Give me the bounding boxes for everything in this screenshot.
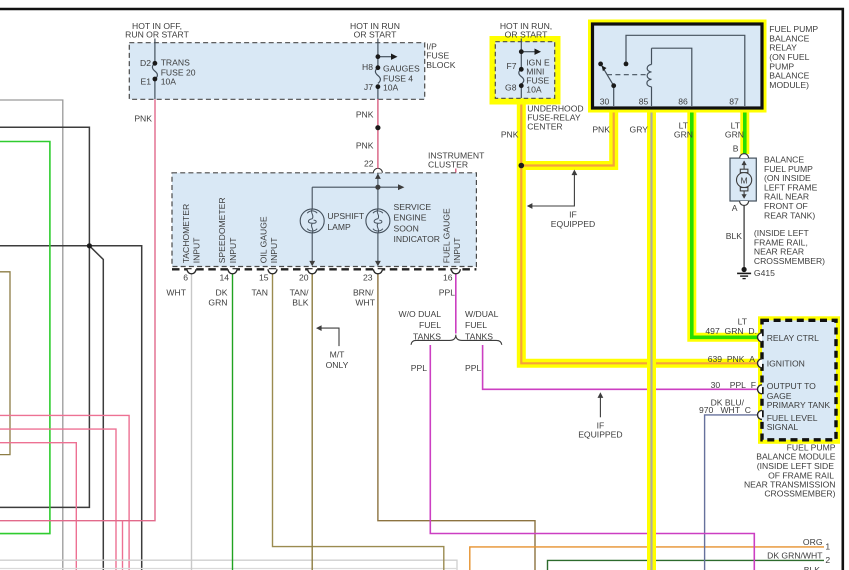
svg-text:TRANS: TRANS bbox=[161, 57, 190, 67]
svg-text:TACHOMETER: TACHOMETER bbox=[181, 204, 191, 264]
svg-text:PNK: PNK bbox=[356, 109, 374, 119]
svg-text:UPSHIFT: UPSHIFT bbox=[327, 211, 365, 221]
svg-text:G415: G415 bbox=[754, 268, 775, 278]
svg-text:ENGINE: ENGINE bbox=[394, 213, 427, 223]
svg-text:SOON: SOON bbox=[394, 223, 419, 233]
svg-text:IF: IF bbox=[569, 210, 577, 220]
svg-text:BLK: BLK bbox=[726, 231, 743, 241]
svg-text:10A: 10A bbox=[161, 76, 177, 86]
svg-text:INPUT: INPUT bbox=[452, 237, 462, 264]
svg-text:1: 1 bbox=[825, 542, 830, 552]
svg-text:PPL: PPL bbox=[411, 363, 427, 373]
svg-text:PPL: PPL bbox=[465, 363, 481, 373]
svg-text:TAN/: TAN/ bbox=[290, 287, 310, 297]
svg-text:OUTPUT TO: OUTPUT TO bbox=[767, 381, 816, 391]
svg-text:BLK: BLK bbox=[804, 565, 821, 570]
svg-text:INDICATOR: INDICATOR bbox=[394, 234, 440, 244]
svg-text:LAMP: LAMP bbox=[327, 222, 351, 232]
svg-text:CROSSMEMBER): CROSSMEMBER) bbox=[754, 256, 825, 266]
svg-text:497 GRN D.: 497 GRN D. bbox=[705, 326, 757, 336]
svg-text:DK: DK bbox=[216, 287, 228, 297]
svg-text:LT: LT bbox=[738, 316, 748, 326]
svg-text:FUEL GAUGE: FUEL GAUGE bbox=[441, 208, 451, 263]
svg-text:RELAY CTRL: RELAY CTRL bbox=[767, 333, 819, 343]
svg-text:86: 86 bbox=[678, 96, 688, 106]
svg-text:GRN: GRN bbox=[208, 298, 227, 308]
svg-text:30: 30 bbox=[600, 96, 610, 106]
svg-text:30 PPL F: 30 PPL F bbox=[711, 380, 756, 390]
svg-text:PNK: PNK bbox=[501, 130, 519, 140]
svg-text:15: 15 bbox=[259, 273, 269, 283]
svg-text:14: 14 bbox=[219, 273, 229, 283]
svg-text:20: 20 bbox=[299, 273, 309, 283]
svg-text:OIL GAUGE: OIL GAUGE bbox=[258, 216, 268, 263]
svg-text:EQUIPPED: EQUIPPED bbox=[551, 219, 595, 229]
svg-text:22: 22 bbox=[364, 159, 374, 169]
svg-text:FUEL: FUEL bbox=[465, 320, 487, 330]
svg-text:PNK: PNK bbox=[356, 141, 374, 151]
svg-text:23: 23 bbox=[363, 273, 373, 283]
svg-text:B: B bbox=[733, 144, 739, 154]
svg-text:INPUT: INPUT bbox=[269, 237, 279, 264]
svg-text:WHT: WHT bbox=[166, 287, 186, 297]
svg-text:D2: D2 bbox=[140, 58, 151, 68]
svg-text:M/T: M/T bbox=[330, 349, 346, 359]
svg-text:RUN OR START: RUN OR START bbox=[125, 30, 189, 40]
svg-text:BLOCK: BLOCK bbox=[426, 60, 455, 70]
svg-text:6: 6 bbox=[183, 273, 188, 283]
svg-text:BLK: BLK bbox=[292, 298, 309, 308]
svg-text:ORG: ORG bbox=[803, 537, 823, 547]
svg-text:PRIMARY TANK: PRIMARY TANK bbox=[767, 400, 831, 410]
svg-text:PPL: PPL bbox=[439, 287, 455, 297]
svg-text:OR START: OR START bbox=[505, 30, 548, 40]
svg-text:GRN: GRN bbox=[674, 130, 693, 140]
svg-text:M: M bbox=[741, 175, 748, 185]
svg-text:16: 16 bbox=[443, 273, 453, 283]
svg-text:MODULE): MODULE) bbox=[769, 80, 809, 90]
svg-text:TANKS: TANKS bbox=[465, 331, 493, 341]
svg-text:GRY: GRY bbox=[630, 125, 649, 135]
svg-text:10A: 10A bbox=[526, 84, 542, 94]
svg-text:87: 87 bbox=[729, 96, 739, 106]
svg-text:PNK: PNK bbox=[134, 113, 152, 123]
svg-text:W/DUAL: W/DUAL bbox=[465, 309, 499, 319]
svg-text:F7: F7 bbox=[506, 61, 516, 71]
svg-text:EQUIPPED: EQUIPPED bbox=[578, 430, 622, 440]
svg-text:A: A bbox=[732, 203, 738, 213]
svg-text:REAR TANK): REAR TANK) bbox=[764, 210, 815, 220]
svg-text:G8: G8 bbox=[505, 83, 517, 93]
svg-text:SIGNAL: SIGNAL bbox=[767, 422, 799, 432]
svg-text:DK GRN/WHT: DK GRN/WHT bbox=[767, 551, 823, 561]
svg-text:639 PNK A: 639 PNK A bbox=[708, 354, 756, 364]
svg-text:FUEL: FUEL bbox=[419, 320, 441, 330]
svg-text:SPEEDOMETER: SPEEDOMETER bbox=[217, 197, 227, 263]
svg-text:W/O DUAL: W/O DUAL bbox=[399, 309, 442, 319]
svg-text:INPUT: INPUT bbox=[192, 237, 202, 264]
svg-text:INPUT: INPUT bbox=[228, 237, 238, 264]
svg-text:GAUGES: GAUGES bbox=[383, 63, 420, 73]
svg-text:E1: E1 bbox=[140, 76, 151, 86]
svg-text:970 WHT C: 970 WHT C bbox=[699, 405, 751, 415]
svg-text:85: 85 bbox=[639, 96, 649, 106]
svg-text:J7: J7 bbox=[364, 82, 373, 92]
svg-text:IGNITION: IGNITION bbox=[767, 359, 805, 369]
svg-text:BRN/: BRN/ bbox=[353, 287, 374, 297]
svg-text:TAN: TAN bbox=[251, 287, 268, 297]
svg-text:CROSSMEMBER): CROSSMEMBER) bbox=[764, 489, 835, 499]
svg-text:2: 2 bbox=[825, 555, 830, 565]
svg-text:GRN: GRN bbox=[725, 130, 744, 140]
svg-text:TANKS: TANKS bbox=[413, 331, 441, 341]
svg-text:SERVICE: SERVICE bbox=[394, 202, 432, 212]
svg-text:OR START: OR START bbox=[354, 30, 397, 40]
svg-text:CLUSTER: CLUSTER bbox=[428, 160, 468, 170]
svg-text:WHT: WHT bbox=[355, 298, 375, 308]
svg-text:ONLY: ONLY bbox=[326, 360, 349, 370]
svg-text:H8: H8 bbox=[362, 62, 373, 72]
svg-text:PNK: PNK bbox=[592, 125, 610, 135]
svg-text:10A: 10A bbox=[383, 82, 399, 92]
svg-text:CENTER: CENTER bbox=[527, 122, 562, 132]
